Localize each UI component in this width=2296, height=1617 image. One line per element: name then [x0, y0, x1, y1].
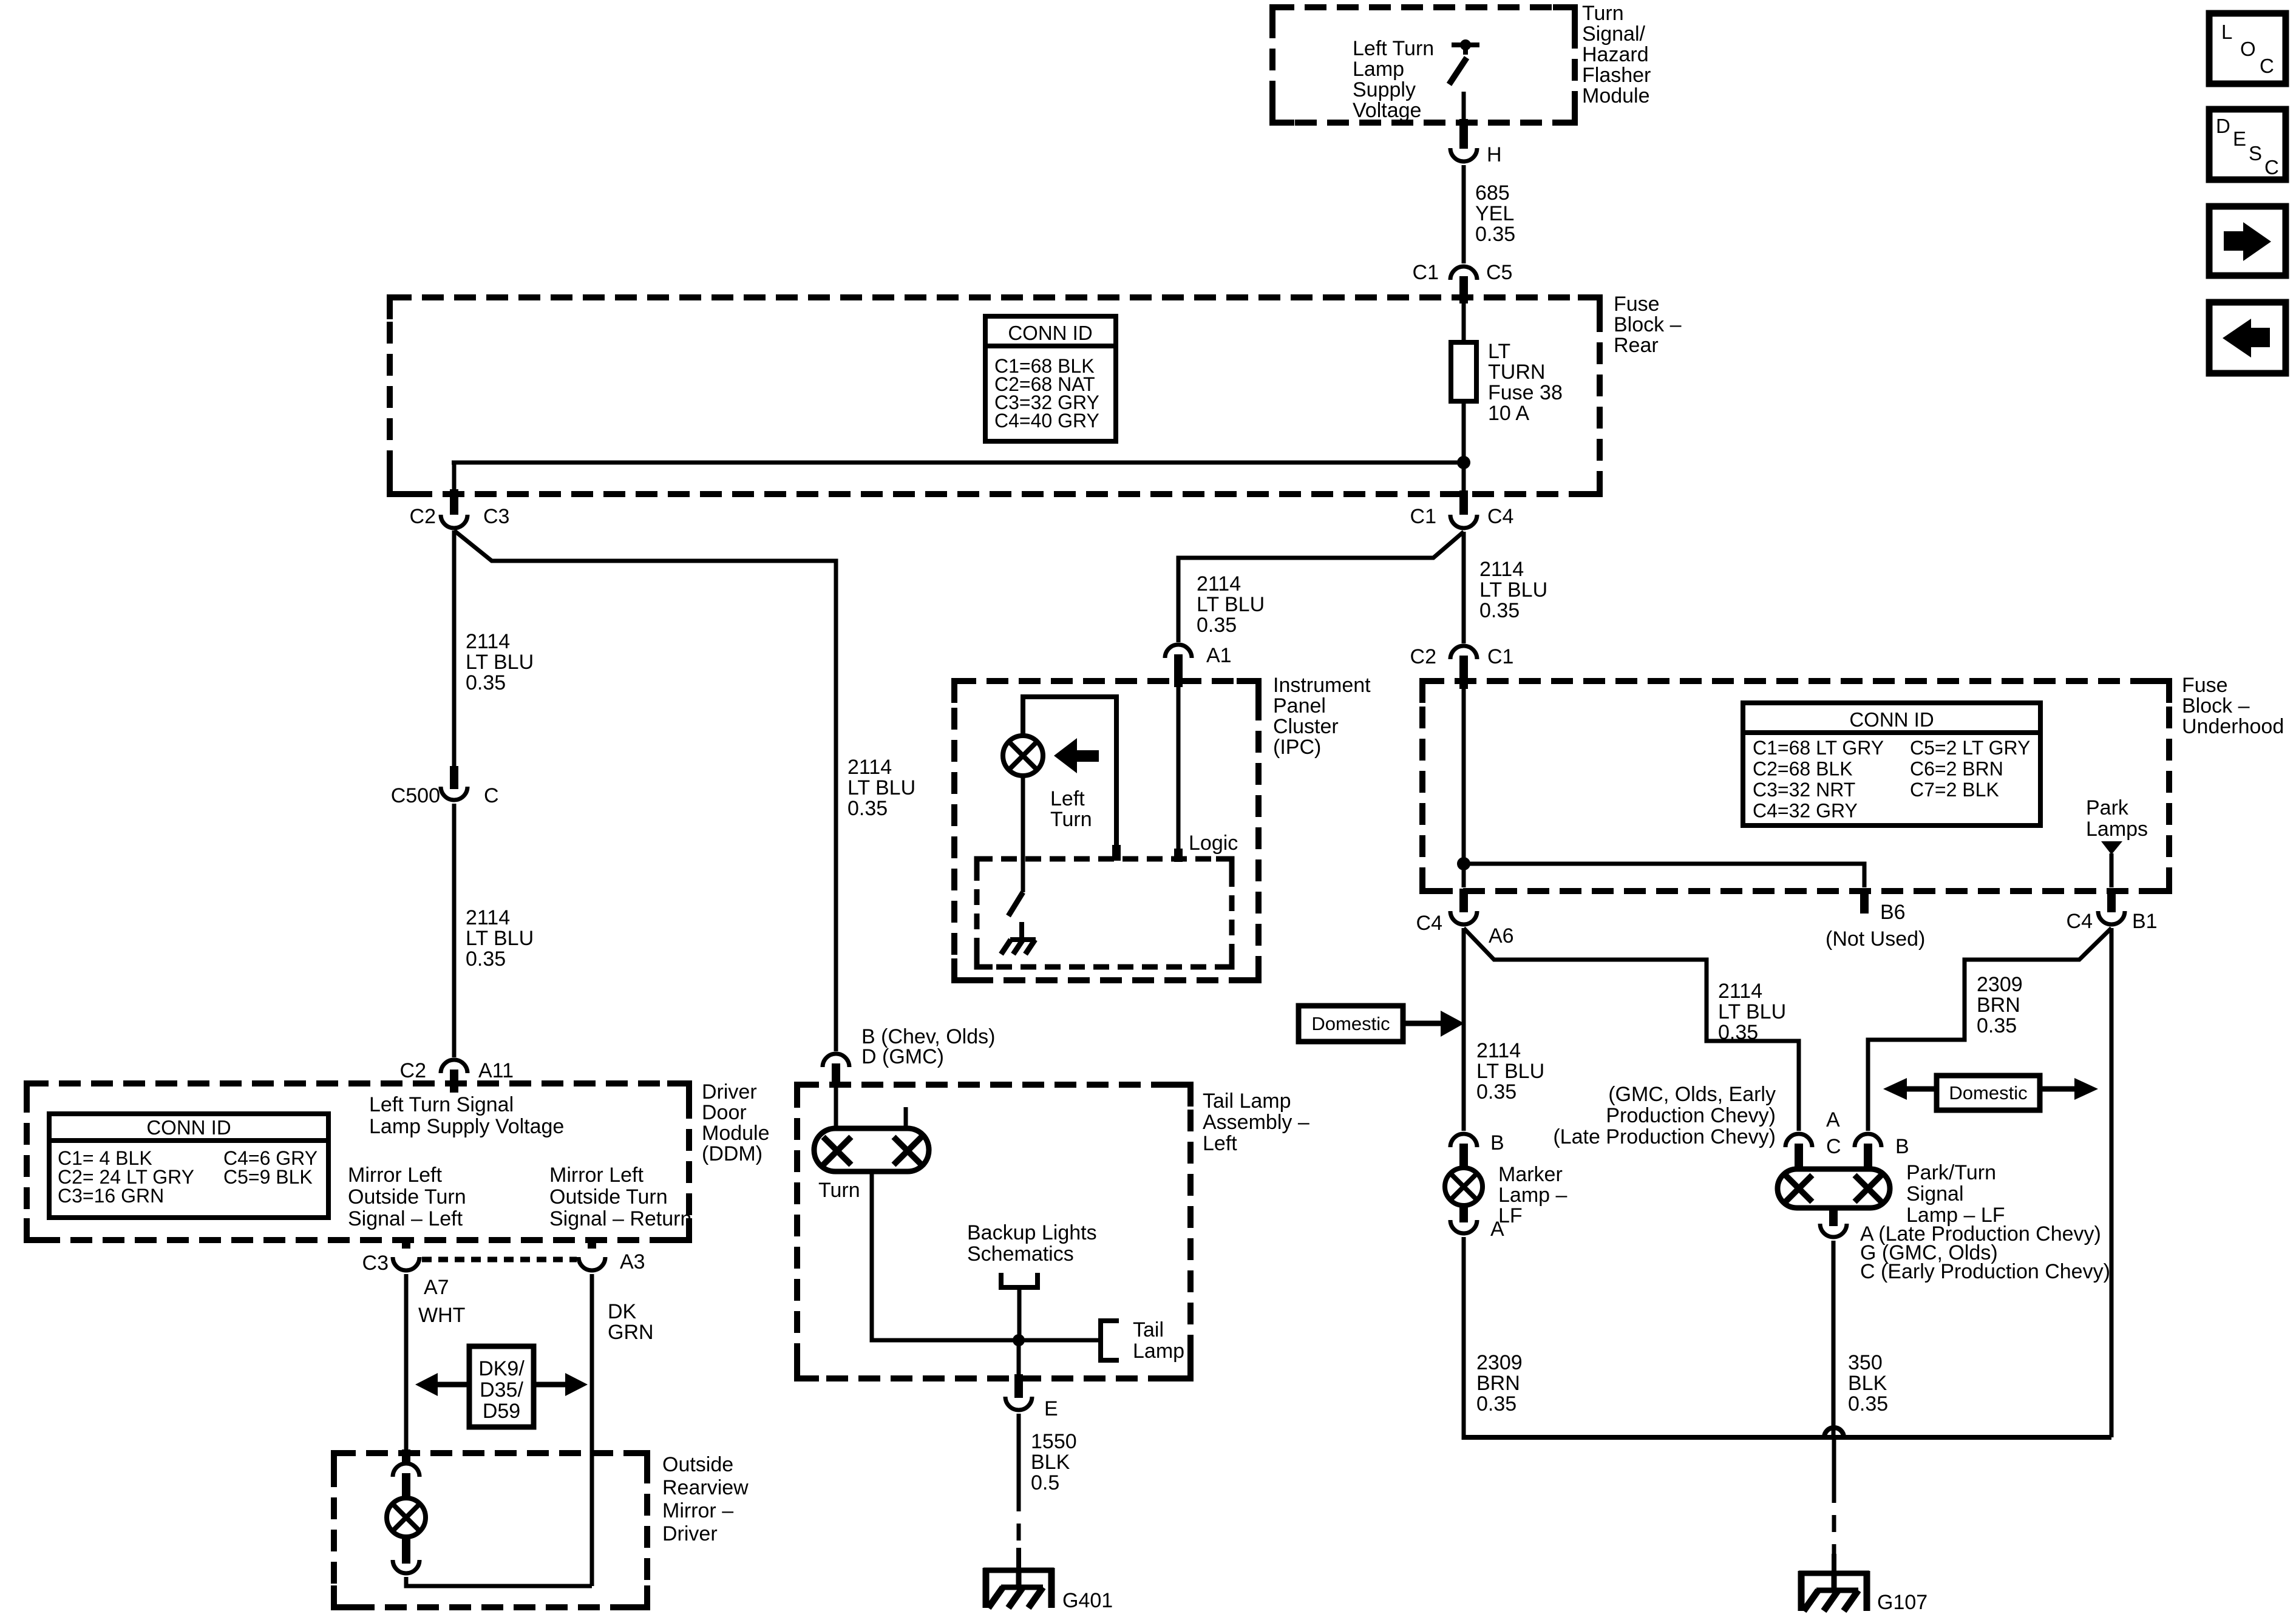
svg-text:Left: Left	[1203, 1132, 1237, 1155]
svg-text:C4: C4	[1487, 505, 1513, 528]
svg-text:2114: 2114	[847, 756, 892, 779]
svg-text:LT BLU: LT BLU	[1197, 593, 1265, 616]
ground rail wire	[1464, 1435, 2111, 1440]
wire 350 BLK to rail	[1832, 1241, 1836, 1437]
svg-text:Mirror Left: Mirror Left	[348, 1164, 442, 1187]
svg-text:0.35: 0.35	[1197, 614, 1237, 637]
module box: Fuse Block - Rear	[390, 297, 1600, 494]
svg-text:LT BLU: LT BLU	[466, 927, 534, 950]
dashed wire to G401	[1017, 1494, 1021, 1551]
wire junction to C2-C3 (horizontal)	[452, 461, 1464, 465]
svg-text:TURN: TURN	[1488, 361, 1545, 384]
label Mirror Left Outside Turn Signal - Return	[549, 1164, 691, 1230]
svg-text:C1=68 LT GRY: C1=68 LT GRY	[1753, 737, 1884, 759]
module box: Outside Rearview Mirror - Driver	[334, 1453, 647, 1607]
Domestic flag (left)	[1299, 1006, 1464, 1042]
svg-text:Lamp –: Lamp –	[1498, 1184, 1567, 1207]
stub A3 below DDM	[588, 1240, 596, 1249]
svg-text:C (Early Production Chevy): C (Early Production Chevy)	[1860, 1260, 2110, 1283]
label 2114 LT BLU 0.35 (marker)	[1476, 1039, 1544, 1103]
svg-text:Flasher: Flasher	[1582, 64, 1651, 87]
svg-text:DK9/: DK9/	[478, 1357, 525, 1380]
svg-text:CONN ID: CONN ID	[146, 1116, 231, 1139]
stub at underhood edge (B1)	[2107, 889, 2116, 912]
svg-text:Supply: Supply	[1353, 78, 1416, 101]
label Instrument Panel Cluster (IPC)	[1273, 674, 1371, 759]
legend box right-arrow	[2209, 206, 2286, 276]
ground G107	[1799, 1554, 1927, 1614]
wire 2309 BRN to rail	[1462, 1237, 1466, 1440]
svg-text:Mirror Left: Mirror Left	[549, 1164, 644, 1187]
svg-text:B: B	[1895, 1135, 1909, 1158]
svg-text:C3: C3	[362, 1252, 389, 1275]
svg-text:Signal/: Signal/	[1582, 22, 1646, 46]
svg-text:Rearview: Rearview	[662, 1476, 749, 1499]
splice flag DK9/D35/D59	[415, 1346, 588, 1427]
stub below park/turn lamp	[1829, 1208, 1838, 1226]
wire B1 to park/turn lamp B	[1868, 928, 2111, 1131]
svg-text:Turn: Turn	[1050, 808, 1092, 831]
A1 wire into logic box	[1177, 687, 1181, 856]
svg-text:C1: C1	[1487, 645, 1513, 668]
tail filament stub	[904, 1107, 908, 1128]
connector A3	[579, 1250, 645, 1273]
connector C4-A6	[1416, 911, 1514, 947]
svg-text:(Late Production Chevy): (Late Production Chevy)	[1553, 1125, 1776, 1148]
svg-text:S: S	[2249, 142, 2262, 164]
svg-text:C3=16 GRN: C3=16 GRN	[58, 1185, 164, 1207]
wire down to C2-C3	[452, 463, 457, 493]
stub loop to logic box	[1112, 845, 1121, 861]
tail turn lamp (dual filament)	[814, 1128, 929, 1171]
label 1550 BLK 0.5	[1031, 1430, 1077, 1494]
svg-text:A: A	[1826, 1108, 1840, 1131]
connector (mirror bottom)	[393, 1560, 419, 1573]
wire turn lamp to tail junction	[872, 1171, 1099, 1340]
stub below marker lamp	[1459, 1205, 1468, 1222]
switch S1 (flasher output)	[1449, 39, 1479, 124]
stub C3 below DDM	[402, 1240, 410, 1249]
junction (tail)	[1013, 1334, 1025, 1346]
stub below mirror lamp	[402, 1537, 410, 1564]
svg-text:685: 685	[1475, 181, 1510, 205]
legend box DESC	[2209, 109, 2286, 180]
stub A-C to lamp	[1795, 1144, 1803, 1170]
svg-text:BLK: BLK	[1031, 1451, 1070, 1474]
stub into DDM	[450, 1070, 458, 1093]
svg-text:Door: Door	[702, 1101, 747, 1124]
svg-text:C2: C2	[400, 1059, 426, 1082]
svg-text:YEL: YEL	[1475, 202, 1514, 225]
svg-text:D35/: D35/	[480, 1378, 523, 1402]
module box: Instrument Panel Cluster (IPC)	[954, 681, 1258, 980]
svg-text:350: 350	[1848, 1351, 1883, 1374]
svg-text:Left Turn Signal: Left Turn Signal	[369, 1093, 514, 1116]
svg-text:10 A: 10 A	[1488, 402, 1529, 425]
stub at rear box edge (center)	[1459, 490, 1468, 515]
svg-text:C2: C2	[410, 505, 436, 528]
svg-text:D (GMC): D (GMC)	[861, 1045, 944, 1068]
svg-text:0.35: 0.35	[1475, 223, 1515, 246]
svg-text:Lamp: Lamp	[1353, 58, 1404, 81]
svg-text:0.35: 0.35	[1848, 1392, 1888, 1415]
label Outside Rearview Mirror - Driver	[662, 1453, 749, 1545]
svg-text:LT BLU: LT BLU	[466, 651, 534, 674]
svg-text:Park: Park	[2086, 796, 2129, 819]
label 2309 BRN 0.35 (marker)	[1476, 1351, 1523, 1415]
backup lights bracket	[1001, 1273, 1038, 1340]
svg-text:LT BLU: LT BLU	[1479, 578, 1547, 602]
wire stub at module edge	[1459, 119, 1468, 149]
Domestic flag (right)	[1883, 1076, 2098, 1110]
stub to mirror lamp	[402, 1473, 410, 1499]
svg-text:WHT: WHT	[418, 1304, 465, 1327]
svg-text:C2=68 BLK: C2=68 BLK	[1753, 758, 1853, 780]
wire park lamps to B1	[2110, 853, 2114, 887]
junction	[1457, 456, 1470, 469]
svg-text:0.35: 0.35	[466, 947, 506, 971]
label 2114 LT BLU 0.35 (lower)	[466, 906, 534, 971]
stub above C500	[450, 766, 458, 789]
svg-text:Domestic: Domestic	[1311, 1013, 1390, 1034]
svg-text:Turn: Turn	[1582, 2, 1624, 25]
svg-text:D59: D59	[483, 1400, 520, 1423]
connector (mirror top)	[393, 1463, 419, 1477]
svg-text:Fuse: Fuse	[2182, 674, 2228, 697]
svg-text:Logic: Logic	[1189, 832, 1238, 855]
svg-text:C5=9 BLK: C5=9 BLK	[223, 1166, 313, 1188]
svg-text:C7=2 BLK: C7=2 BLK	[1910, 779, 1999, 801]
IPC switch	[1008, 892, 1023, 938]
svg-text:C500: C500	[391, 784, 440, 807]
connector B (park/turn)	[1855, 1134, 1909, 1158]
dashed wire to G107	[1832, 1486, 1836, 1558]
svg-text:0.35: 0.35	[1476, 1080, 1517, 1103]
wire A6 to marker lamp	[1462, 928, 1466, 1131]
svg-text:(GMC, Olds, Early: (GMC, Olds, Early	[1608, 1083, 1776, 1106]
svg-text:D: D	[2216, 115, 2230, 137]
svg-text:Module: Module	[702, 1122, 770, 1145]
label 2114 LT BLU 0.35	[466, 630, 534, 694]
svg-text:LT BLU: LT BLU	[1476, 1060, 1544, 1083]
svg-text:Lamps: Lamps	[2086, 818, 2148, 841]
svg-text:B6: B6	[1880, 901, 1906, 924]
connector E	[1005, 1397, 1058, 1420]
svg-text:C4=40 GRY: C4=40 GRY	[994, 410, 1099, 432]
label Fuse Block - Underhood	[2182, 674, 2284, 738]
svg-text:Backup Lights: Backup Lights	[967, 1221, 1097, 1244]
svg-text:0.35: 0.35	[1718, 1021, 1758, 1044]
connector C3-A7	[362, 1252, 449, 1299]
wire from C5 to fuse	[1462, 303, 1466, 344]
label DK GRN	[608, 1300, 654, 1344]
stub A1 wire at logic box edge	[1174, 849, 1183, 862]
svg-text:A: A	[1490, 1218, 1504, 1241]
svg-text:C: C	[2264, 156, 2279, 178]
label Tail Lamp Assembly - Left	[1203, 1090, 1309, 1155]
wire C4 to A1 branch	[1178, 532, 1464, 642]
label Driver Door Module (DDM)	[702, 1080, 770, 1165]
legend box left-arrow	[2209, 302, 2286, 373]
mirror return wire	[406, 1577, 592, 1586]
stub at underhood edge (A6)	[1459, 889, 1468, 912]
tail lamp bracket	[1101, 1318, 1184, 1363]
legend box LOC	[2209, 13, 2286, 84]
svg-text:Outside Turn: Outside Turn	[549, 1185, 668, 1209]
svg-text:Rear: Rear	[1614, 334, 1659, 357]
svg-text:Fuse: Fuse	[1614, 293, 1660, 316]
wire 685 YEL	[1462, 165, 1466, 263]
svg-text:2114: 2114	[1476, 1039, 1521, 1062]
svg-text:Assembly –: Assembly –	[1203, 1111, 1309, 1134]
svg-text:BRN: BRN	[1977, 994, 2020, 1017]
svg-text:H: H	[1487, 143, 1502, 166]
svg-text:Driver: Driver	[702, 1080, 757, 1103]
svg-text:A1: A1	[1206, 644, 1232, 667]
IPC lamp feed loop	[1023, 697, 1116, 850]
wire 1550 BLK	[1017, 1414, 1021, 1494]
connector C2-C1	[1410, 645, 1514, 668]
connector C4-B1	[2067, 910, 2158, 933]
label Backup Lights Schematics	[967, 1221, 1097, 1266]
svg-text:C4: C4	[1416, 912, 1442, 935]
label Left Turn Signal Lamp Supply Voltage	[369, 1093, 564, 1138]
svg-text:C1: C1	[1413, 261, 1439, 284]
label 350 BLK 0.35	[1848, 1351, 1888, 1415]
module box: Tail Lamp Assembly - Left	[797, 1085, 1190, 1378]
svg-text:Signal – Left: Signal – Left	[348, 1207, 463, 1230]
module box: Turn Signal/Hazard Flasher Module	[1272, 7, 1575, 123]
wire fuse to junction	[1462, 401, 1466, 497]
CONN ID table (DDM)	[49, 1114, 328, 1218]
label 685 YEL 0.35	[1475, 181, 1515, 246]
svg-text:C4: C4	[2067, 910, 2093, 933]
CONN ID table (rear)	[985, 316, 1116, 441]
svg-text:Driver: Driver	[662, 1522, 718, 1545]
svg-text:B: B	[1490, 1131, 1504, 1154]
svg-text:LT BLU: LT BLU	[847, 776, 915, 799]
module box: Fuse Block - Underhood	[1422, 681, 2169, 891]
label Left Turn Lamp Supply Voltage	[1353, 37, 1434, 122]
svg-text:2309: 2309	[1476, 1351, 1523, 1374]
svg-text:A11: A11	[478, 1059, 514, 1082]
label Turn Signal/Hazard Flasher Module	[1582, 2, 1651, 107]
label Mirror Left Outside Turn Signal - Left	[348, 1164, 466, 1230]
svg-text:2114: 2114	[1718, 980, 1762, 1003]
svg-text:L: L	[2221, 21, 2232, 43]
wire WHT	[404, 1274, 409, 1456]
connector C2-C3	[410, 505, 510, 528]
stub into IPC	[1174, 654, 1183, 687]
svg-text:Underhood: Underhood	[2182, 715, 2284, 738]
stub at tail box edge	[1014, 1374, 1023, 1398]
svg-text:BLK: BLK	[1848, 1372, 1887, 1395]
svg-text:Outside Turn: Outside Turn	[348, 1185, 466, 1209]
stub into fuse block rear	[1459, 276, 1468, 303]
IPC left-arrow indicator	[1054, 738, 1099, 773]
svg-text:E: E	[2233, 127, 2246, 150]
label 2114 LT BLU 0.35 (tail branch)	[847, 756, 915, 820]
svg-text:BRN: BRN	[1476, 1372, 1520, 1395]
svg-text:Tail: Tail	[1133, 1318, 1164, 1341]
svg-text:(IPC): (IPC)	[1273, 736, 1321, 759]
svg-text:2114: 2114	[1197, 572, 1241, 595]
svg-text:GRN: GRN	[608, 1321, 654, 1344]
svg-text:2309: 2309	[1977, 973, 2023, 996]
svg-text:C5=2 LT GRY: C5=2 LT GRY	[1910, 737, 2030, 759]
svg-text:Panel: Panel	[1273, 694, 1326, 717]
label 2114 LT BLU 0.35 (main)	[1479, 558, 1547, 622]
svg-text:1550: 1550	[1031, 1430, 1077, 1453]
connector B/D (tail lamp)	[823, 1025, 995, 1068]
svg-text:Left Turn: Left Turn	[1353, 37, 1434, 60]
park/turn signal lamp LF	[1778, 1161, 2005, 1227]
IPC left turn indicator lamp	[1003, 736, 1043, 776]
logic dashed box	[977, 859, 1232, 967]
mirror turn lamp	[387, 1498, 426, 1537]
svg-text:O: O	[2240, 38, 2256, 60]
marker lamp LF	[1445, 1163, 1567, 1227]
svg-text:Cluster: Cluster	[1273, 715, 1339, 738]
wire C1 down to junction	[1462, 689, 1466, 887]
svg-text:Lamp: Lamp	[1133, 1340, 1184, 1363]
svg-text:A3: A3	[620, 1250, 645, 1273]
wire C4 to C2 (main)	[1462, 532, 1466, 643]
svg-text:0.35: 0.35	[1977, 1014, 2017, 1037]
svg-text:C: C	[484, 784, 499, 807]
stub into fuse block underhood	[1459, 656, 1468, 689]
connector line C3-A3 (dotted)	[422, 1257, 577, 1263]
svg-text:C6=2 BRN: C6=2 BRN	[1910, 758, 2003, 780]
svg-text:Left: Left	[1050, 787, 1085, 810]
stub into tail lamp assembly	[832, 1063, 840, 1088]
fuse LT TURN Fuse 38 10 A	[1451, 340, 1563, 425]
label 2114 LT BLU 0.35 (A1 branch)	[1197, 572, 1265, 637]
svg-text:A7: A7	[424, 1276, 449, 1299]
connector C1-C4	[1410, 505, 1514, 528]
svg-text:C1: C1	[1410, 505, 1436, 528]
connector A/G/C (park/turn bottom)	[1820, 1222, 2110, 1283]
label 2114 LT BLU 0.35 (park/turn)	[1718, 980, 1786, 1044]
svg-text:0.35: 0.35	[466, 671, 506, 694]
label Park Lamps	[2086, 796, 2148, 841]
stub to marker lamp	[1459, 1144, 1468, 1169]
svg-text:Domestic: Domestic	[1949, 1082, 2027, 1103]
connector B (marker lamp)	[1450, 1131, 1504, 1154]
connector A (marker lamp)	[1450, 1218, 1504, 1241]
wire C3 branch to tail lamp (diagonal+horizontal)	[454, 531, 836, 1051]
wire B/D into tail lamp	[834, 1088, 838, 1130]
connector C2-A11	[400, 1059, 514, 1082]
svg-text:Module: Module	[1582, 84, 1650, 107]
svg-text:C3: C3	[483, 505, 509, 528]
wire 2114 LT BLU (C3 to C500)	[452, 531, 457, 766]
wire A6 to park/turn lamp A-C	[1464, 928, 1799, 1131]
label Fuse Block - Rear	[1614, 293, 1682, 357]
svg-text:0.35: 0.35	[847, 797, 888, 820]
svg-text:0.5: 0.5	[1031, 1471, 1059, 1494]
connector C500-C	[391, 784, 499, 807]
svg-text:Hazard: Hazard	[1582, 43, 1649, 66]
CONN ID table (underhood)	[1743, 703, 2040, 825]
svg-text:A6: A6	[1489, 924, 1514, 947]
label Left Turn	[1050, 787, 1092, 831]
wire lamp to switch	[1021, 776, 1025, 892]
stub B to lamp	[1864, 1144, 1872, 1170]
svg-text:Signal: Signal	[1906, 1182, 1964, 1205]
wire to G107	[1832, 1437, 1836, 1486]
wire 2114 LT BLU (C to A11)	[452, 804, 457, 1057]
svg-text:2114: 2114	[1479, 558, 1524, 581]
svg-text:Instrument: Instrument	[1273, 674, 1371, 697]
svg-text:C: C	[1826, 1135, 1841, 1158]
svg-text:CONN ID: CONN ID	[1849, 708, 1934, 731]
svg-text:Block –: Block –	[2182, 694, 2250, 717]
svg-text:Turn: Turn	[818, 1179, 860, 1202]
connector C1-C5	[1413, 261, 1513, 284]
svg-text:DK: DK	[608, 1300, 637, 1323]
connector A-C (park/turn)	[1785, 1108, 1841, 1158]
wire junction to B6	[1464, 864, 1864, 887]
stub at mirror box edge	[402, 1449, 410, 1464]
park lamps feed arrow	[2101, 841, 2122, 855]
svg-text:B1: B1	[2132, 910, 2158, 933]
module box: Driver Door Module (DDM)	[27, 1083, 689, 1240]
svg-text:Production Chevy): Production Chevy)	[1606, 1104, 1776, 1127]
svg-text:0.35: 0.35	[1476, 1392, 1517, 1415]
connector H	[1450, 143, 1502, 166]
svg-text:Park/Turn: Park/Turn	[1906, 1161, 1996, 1184]
svg-text:LT: LT	[1488, 340, 1510, 363]
svg-text:G107: G107	[1877, 1591, 1927, 1614]
svg-text:(Not Used): (Not Used)	[1826, 927, 1925, 951]
IPC internal ground	[1001, 940, 1036, 954]
wire B1 straight down to rail	[2110, 928, 2114, 1437]
svg-text:2114: 2114	[466, 906, 510, 929]
svg-text:2114: 2114	[466, 630, 510, 653]
svg-text:Voltage: Voltage	[1353, 99, 1421, 122]
svg-text:Signal – Return: Signal – Return	[549, 1207, 691, 1230]
label production variants	[1553, 1083, 1776, 1148]
svg-text:0.35: 0.35	[1479, 599, 1520, 622]
svg-text:C4=32 GRY: C4=32 GRY	[1753, 800, 1858, 822]
svg-text:C: C	[2260, 55, 2274, 77]
svg-text:C2: C2	[1410, 645, 1436, 668]
wire junction to E	[1017, 1340, 1021, 1377]
label 2309 BRN 0.35 (park/turn)	[1977, 973, 2023, 1037]
ground G401	[983, 1548, 1113, 1612]
svg-text:Marker: Marker	[1498, 1163, 1563, 1186]
svg-text:Block –: Block –	[1614, 313, 1682, 336]
svg-text:E: E	[1044, 1397, 1058, 1420]
junction (underhood)	[1457, 857, 1470, 870]
svg-text:C3=32 NRT: C3=32 NRT	[1753, 779, 1855, 801]
svg-text:CONN ID: CONN ID	[1008, 322, 1092, 344]
svg-text:Mirror –: Mirror –	[662, 1499, 733, 1522]
stub B6 (not used)	[1826, 889, 1925, 951]
wire DK GRN	[590, 1274, 594, 1586]
svg-text:Fuse 38: Fuse 38	[1488, 381, 1563, 404]
svg-text:Outside: Outside	[662, 1453, 733, 1476]
svg-text:Tail Lamp: Tail Lamp	[1203, 1090, 1291, 1113]
svg-text:Lamp Supply Voltage: Lamp Supply Voltage	[369, 1115, 564, 1138]
svg-text:(DDM): (DDM)	[702, 1142, 763, 1165]
svg-text:C5: C5	[1486, 261, 1512, 284]
svg-text:LT BLU: LT BLU	[1718, 1000, 1786, 1023]
svg-text:Schematics: Schematics	[967, 1242, 1074, 1266]
stub at rear box edge (left)	[450, 489, 458, 515]
svg-text:G401: G401	[1062, 1589, 1113, 1612]
